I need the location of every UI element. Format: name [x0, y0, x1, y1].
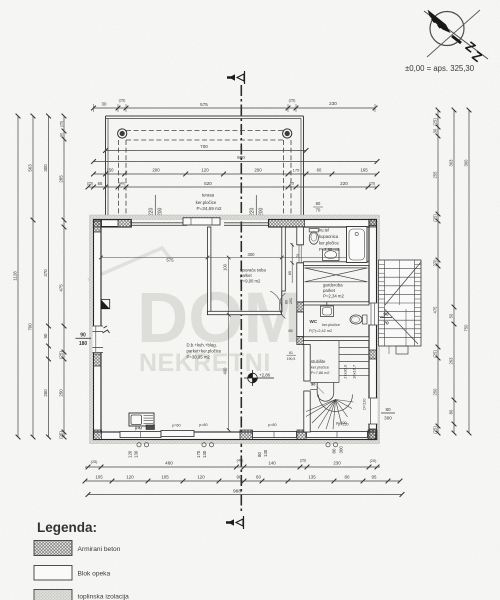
wc toilet [350, 315, 362, 324]
bedroom right wall [282, 227, 286, 291]
section centerline [240, 85, 242, 513]
column left [118, 129, 127, 138]
dimension line 900 [94, 161, 378, 163]
outer wall top segments [94, 220, 132, 228]
stair treads [338, 341, 340, 383]
insulation outer band [90, 215, 380, 444]
wc sink [321, 306, 334, 317]
left wall window [93, 326, 103, 353]
garderoba bottom wall [303, 302, 369, 305]
outer wall bottom [94, 432, 376, 440]
outer wall right [369, 220, 377, 440]
right wall door 80/300 [368, 398, 377, 424]
bathroom toilet [309, 232, 318, 244]
north arrow compass [424, 10, 488, 65]
bathtub [347, 227, 368, 263]
garderoba X closet [305, 268, 368, 282]
dimension line 700 (terrace) [106, 150, 307, 152]
interior wall A (bath/wc) [297, 227, 304, 245]
legend blok opeka [34, 566, 72, 581]
dimension total 988 [88, 494, 402, 496]
fireplace [101, 300, 110, 309]
bottom wall windows [120, 432, 161, 438]
external stairs [379, 260, 422, 346]
bedroom left wall [208, 227, 211, 315]
stair winder fan [306, 400, 336, 412]
legend armirani beton [34, 541, 72, 556]
drain circles [137, 443, 141, 447]
dimension chain top [94, 107, 376, 109]
bathroom bottom wall [303, 262, 369, 266]
bedroom door leaf + arc [281, 291, 283, 312]
watermark logo DOM NEKRETNINE [88, 248, 303, 377]
stair inner void U [316, 383, 318, 394]
corridor door arc [279, 293, 285, 319]
terrace outline [106, 115, 304, 117]
concrete blocks (armirani beton) [94, 220, 102, 228]
door in wall A (70) [297, 244, 304, 246]
right wall window 90/70 [368, 303, 377, 325]
wc bottom wall [303, 337, 369, 341]
window frame boxes top [102, 220, 119, 227]
dimension chain bottom 2 [85, 480, 400, 482]
interior dim horizontal [101, 257, 347, 259]
dimension lines right side [437, 110, 439, 433]
bedroom interior dim [284, 230, 286, 257]
wall break marks [103, 326, 110, 333]
dimension chain (65/40/520/65/220) [88, 186, 377, 188]
level marker [244, 370, 274, 386]
section arrow top [227, 76, 233, 79]
top wall glazing [132, 222, 188, 224]
interior dim vertical [228, 258, 230, 431]
dimension chain (150/200/120/200/175/60/165) [94, 173, 378, 175]
column right [283, 129, 292, 138]
section arrow bottom [226, 521, 232, 524]
stair room left wall [304, 345, 310, 381]
dimension lines left side [17, 116, 19, 437]
legend toplinska izolacija [34, 590, 72, 600]
dimension chain bottom 1 [85, 466, 380, 468]
outer wall left [94, 220, 102, 440]
terrace roof dashed lines [126, 130, 284, 132]
bedroom bottom wall [208, 311, 282, 314]
hallway dim [291, 243, 293, 283]
bathroom sink [323, 249, 340, 261]
tv cabinet [129, 413, 154, 426]
